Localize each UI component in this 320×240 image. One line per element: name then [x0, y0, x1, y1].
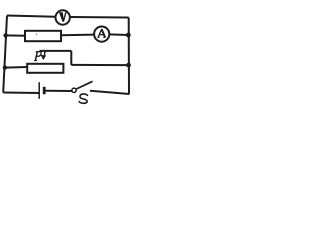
wire row3 left junction to rheostat: [5, 66, 28, 69]
switch S lever: [76, 81, 92, 89]
ammeter U2 circle: [94, 26, 109, 41]
battery long plate: [38, 82, 40, 99]
rheostat wiper arrow: [44, 51, 46, 55]
resistor R box: [25, 31, 61, 41]
wire top-left to voltmeter: [7, 16, 56, 17]
voltmeter U1 circle: [56, 10, 70, 24]
wire battery to switch: [46, 90, 72, 92]
node junction dot row2 right: [126, 33, 131, 38]
rheostat box: [27, 64, 63, 73]
label A ammeter: [97, 29, 105, 37]
node junction dot row3 right: [126, 63, 131, 68]
wire row2 left junction to resistor: [6, 34, 25, 36]
wire bottom-left to battery: [3, 92, 39, 95]
node junction dot row2 left: [3, 33, 7, 37]
rheostat wiper line: [40, 50, 72, 52]
label V voltmeter: [59, 12, 67, 21]
faint printing speck inside resistor box: [35, 33, 37, 35]
wire left vertical: [3, 16, 7, 93]
battery short thick plate: [43, 87, 46, 94]
wire ammeter to right vertical: [110, 33, 129, 36]
label S switch: [79, 94, 87, 103]
node junction dot row3 left: [3, 65, 7, 69]
rheostat wiper bend down: [70, 51, 72, 65]
wire voltmeter to top-right corner: [70, 16, 129, 19]
wire resistor to ammeter: [60, 34, 95, 37]
wire right vertical: [128, 18, 130, 95]
label P rheostat wiper: [34, 52, 41, 61]
wire rheostat to right vertical: [71, 64, 128, 66]
wire switch to bottom-right corner: [90, 91, 129, 94]
switch S pivot circle: [72, 88, 76, 92]
